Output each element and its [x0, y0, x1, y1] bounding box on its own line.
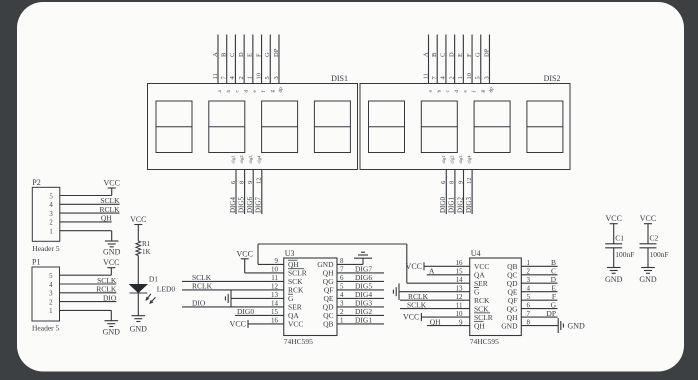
svg-text:SCLK: SCLK: [97, 276, 117, 285]
svg-text:A: A: [422, 52, 429, 57]
svg-text:1: 1: [247, 76, 254, 79]
svg-text:DIG1: DIG1: [355, 316, 372, 325]
svg-text:GND: GND: [130, 325, 148, 334]
svg-text:2: 2: [49, 299, 53, 306]
svg-text:2: 2: [448, 76, 455, 79]
svg-text:C: C: [440, 53, 447, 57]
svg-text:R1: R1: [142, 240, 151, 248]
svg-text:LED0: LED0: [157, 284, 176, 293]
svg-text:100nF: 100nF: [615, 250, 634, 259]
svg-text:b: b: [436, 90, 442, 93]
svg-text:4: 4: [49, 282, 53, 289]
svg-text:B: B: [221, 52, 228, 57]
svg-text:d: d: [243, 90, 249, 93]
svg-text:P2: P2: [32, 178, 40, 187]
svg-text:GND: GND: [568, 322, 586, 331]
svg-text:8: 8: [449, 181, 456, 184]
svg-text:10: 10: [255, 73, 262, 80]
svg-text:DP: DP: [273, 48, 280, 57]
svg-text:5: 5: [475, 76, 482, 79]
svg-text:DIG3: DIG3: [465, 197, 473, 213]
svg-text:100nF: 100nF: [650, 250, 669, 259]
svg-text:9: 9: [247, 181, 254, 184]
svg-text:g: g: [269, 90, 275, 93]
svg-text:dig3: dig3: [248, 155, 253, 164]
svg-text:14: 14: [456, 276, 464, 284]
svg-text:P1: P1: [32, 258, 40, 267]
svg-text:dig2: dig2: [239, 155, 244, 163]
svg-text:QH: QH: [474, 321, 485, 330]
svg-text:11: 11: [422, 73, 429, 79]
svg-text:D: D: [238, 52, 245, 57]
svg-text:VCC: VCC: [288, 320, 303, 329]
svg-text:VCC: VCC: [605, 214, 621, 223]
svg-text:GND: GND: [605, 275, 623, 284]
svg-text:G: G: [264, 52, 271, 57]
svg-text:D: D: [448, 52, 455, 57]
svg-text:VCC: VCC: [640, 214, 656, 223]
svg-text:Header 5: Header 5: [32, 324, 60, 333]
svg-text:DIG2: DIG2: [456, 197, 464, 213]
svg-text:GND: GND: [103, 327, 121, 336]
svg-text:4: 4: [49, 202, 53, 209]
svg-text:VCC: VCC: [103, 258, 119, 267]
svg-text:DIS1: DIS1: [331, 74, 348, 83]
svg-text:3: 3: [49, 211, 53, 218]
svg-text:GND: GND: [639, 275, 657, 284]
svg-text:U3: U3: [285, 249, 295, 258]
svg-text:f: f: [260, 91, 267, 93]
svg-text:VCC: VCC: [406, 262, 422, 271]
svg-text:1: 1: [49, 308, 52, 315]
svg-text:VCC: VCC: [103, 179, 119, 188]
svg-text:g: g: [480, 90, 486, 93]
svg-text:dp: dp: [489, 87, 495, 93]
svg-text:74HC595: 74HC595: [284, 337, 313, 346]
svg-text:QB: QB: [323, 320, 333, 329]
svg-text:3: 3: [483, 76, 490, 79]
svg-text:DIG7: DIG7: [255, 197, 263, 213]
svg-text:Header 5: Header 5: [32, 244, 60, 253]
svg-text:RCLK: RCLK: [192, 282, 213, 291]
svg-text:VCC: VCC: [236, 249, 252, 258]
svg-text:1: 1: [49, 229, 52, 236]
svg-text:1: 1: [457, 76, 464, 79]
svg-text:10: 10: [466, 73, 473, 80]
svg-text:5: 5: [49, 273, 53, 280]
svg-text:DIS2: DIS2: [544, 74, 561, 83]
svg-text:9: 9: [457, 181, 464, 184]
svg-text:dig2: dig2: [450, 155, 455, 163]
svg-text:12: 12: [256, 178, 263, 185]
svg-text:3: 3: [273, 76, 280, 79]
svg-text:DIG0: DIG0: [237, 307, 254, 316]
svg-text:VCC: VCC: [130, 215, 146, 224]
svg-text:SCLK: SCLK: [100, 196, 120, 205]
svg-text:dig1: dig1: [441, 155, 446, 163]
svg-text:B: B: [431, 52, 438, 57]
svg-text:F: F: [255, 53, 262, 57]
svg-text:DIO: DIO: [192, 299, 206, 308]
svg-text:dp: dp: [278, 87, 284, 93]
svg-text:C: C: [229, 53, 236, 57]
svg-text:GND: GND: [103, 248, 121, 257]
svg-text:VCC: VCC: [230, 319, 246, 328]
svg-text:8: 8: [238, 181, 245, 184]
svg-text:E: E: [457, 53, 464, 57]
svg-text:QH: QH: [101, 214, 112, 223]
svg-text:12: 12: [466, 178, 473, 185]
svg-text:74HC595: 74HC595: [470, 337, 499, 346]
svg-text:DIG0: DIG0: [439, 197, 447, 213]
svg-text:DIG5: DIG5: [237, 197, 245, 213]
svg-text:1K: 1K: [142, 248, 151, 256]
svg-text:2: 2: [49, 220, 53, 227]
svg-text:U4: U4: [471, 249, 481, 258]
svg-text:E: E: [247, 53, 254, 57]
svg-text:dig3: dig3: [458, 155, 463, 164]
svg-text:3: 3: [49, 291, 53, 298]
svg-text:d: d: [454, 90, 460, 93]
svg-text:GND: GND: [501, 321, 518, 330]
svg-text:G: G: [475, 52, 482, 57]
svg-text:RCLK: RCLK: [96, 285, 117, 294]
svg-text:C2: C2: [650, 234, 659, 243]
svg-text:DP: DP: [483, 48, 490, 57]
svg-text:2: 2: [238, 76, 245, 79]
svg-text:A: A: [212, 52, 219, 57]
svg-text:5: 5: [49, 193, 53, 200]
svg-text:QH: QH: [430, 317, 441, 326]
svg-text:b: b: [226, 90, 232, 93]
svg-text:RCLK: RCLK: [99, 205, 120, 214]
svg-text:A: A: [429, 267, 435, 276]
svg-text:dig4: dig4: [256, 155, 261, 164]
svg-text:SCLK: SCLK: [407, 300, 427, 309]
svg-text:DIG6: DIG6: [246, 197, 254, 213]
svg-text:DIG4: DIG4: [229, 197, 237, 213]
svg-text:C1: C1: [615, 234, 624, 243]
svg-text:F: F: [466, 53, 473, 57]
svg-text:f: f: [470, 91, 477, 93]
svg-text:DIO: DIO: [103, 293, 117, 302]
svg-text:VCC: VCC: [403, 313, 419, 322]
svg-text:DP: DP: [546, 309, 556, 318]
svg-text:11: 11: [212, 73, 219, 79]
svg-text:dig1: dig1: [231, 155, 236, 163]
svg-text:D1: D1: [149, 274, 158, 283]
svg-text:DIG1: DIG1: [448, 197, 456, 213]
svg-text:dig4: dig4: [467, 155, 472, 164]
svg-text:5: 5: [264, 76, 271, 79]
